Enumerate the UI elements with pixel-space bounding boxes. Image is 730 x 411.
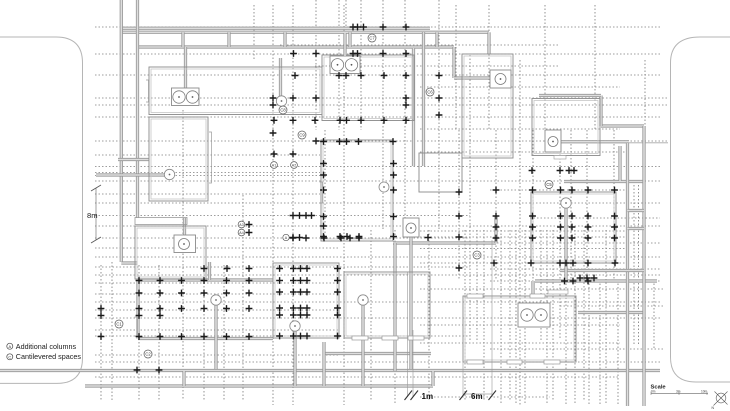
svg-text:C6: C6 — [427, 90, 433, 95]
svg-text:C2: C2 — [145, 352, 151, 357]
svg-text:Cantilevered spaces: Cantilevered spaces — [16, 352, 82, 361]
svg-text:6m: 6m — [471, 392, 483, 401]
svg-text:C9: C9 — [299, 133, 305, 138]
svg-text:A4: A4 — [239, 231, 243, 235]
svg-text:A3: A3 — [239, 223, 243, 227]
svg-text:A: A — [8, 344, 11, 349]
svg-text:3m: 3m — [676, 390, 681, 394]
svg-text:1m: 1m — [422, 392, 434, 401]
svg-text:C7: C7 — [369, 36, 375, 41]
svg-text:0m: 0m — [651, 390, 656, 394]
svg-text:C5: C5 — [546, 182, 552, 187]
svg-text:C1: C1 — [116, 322, 122, 327]
svg-text:C8: C8 — [280, 108, 286, 113]
svg-text:C3: C3 — [474, 253, 480, 258]
svg-text:C: C — [8, 354, 11, 359]
svg-text:10m: 10m — [701, 390, 708, 394]
svg-text:Additional columns: Additional columns — [16, 342, 77, 351]
svg-text:A1: A1 — [272, 164, 276, 168]
svg-text:8m: 8m — [87, 211, 98, 220]
svg-text:A2: A2 — [292, 164, 296, 168]
